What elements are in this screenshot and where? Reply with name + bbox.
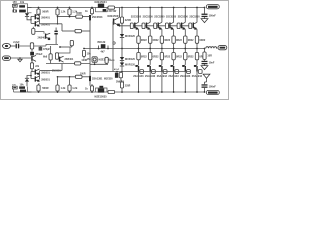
wire bpair join [30, 72, 32, 79]
wire [32, 27, 34, 29]
terminal IN jack [3, 43, 11, 48]
wire [204, 17, 206, 19]
wire collector col5 [184, 8, 186, 23]
transistor Q prot [31, 56, 33, 61]
wire [83, 56, 85, 58]
svg-text:2.2uF: 2.2uF [13, 41, 20, 44]
wire Q2 emitter [26, 12, 28, 14]
wire R 1.2k down [57, 15, 59, 24]
wire [58, 16, 76, 18]
junction dot [69, 76, 71, 78]
diode D bias b [99, 86, 103, 88]
wire driver base [112, 22, 114, 27]
wire lmid bus [46, 63, 90, 65]
resistor R lm [75, 62, 81, 65]
svg-text:BD139: BD139 [98, 41, 106, 44]
wire [11, 45, 16, 47]
junction dot [57, 76, 59, 78]
junction dot rail col3 [161, 7, 163, 9]
wire collector pnp col4 [173, 72, 175, 92]
wire output bus [84, 48, 205, 50]
wire drv2 [106, 63, 108, 64]
svg-text:0R22: 0R22 [141, 56, 147, 59]
wire collector pnp col2 [149, 72, 151, 92]
svg-text:2N5401: 2N5401 [41, 23, 50, 26]
wire [60, 46, 72, 48]
transistor Q VAS bot [89, 76, 91, 81]
wire [11, 57, 32, 59]
svg-text:MUR120: MUR120 [125, 58, 135, 61]
transistor 2N5551 b y69.4 [35, 69, 36, 74]
wire emitter col4 [173, 29, 175, 36]
svg-text:560R: 560R [42, 10, 48, 14]
transistor 2N5551 b y76.4 [35, 76, 36, 81]
transistor 2SA1943 col3 [161, 66, 162, 72]
wire to bus col2 [149, 43, 151, 48]
resistor 0R22 pnp col6 [195, 53, 198, 60]
svg-text:100R: 100R [76, 13, 82, 15]
transistor 2SA1943 col1 [138, 66, 139, 72]
wire [121, 88, 123, 92]
resistor 0R22 col5 [184, 36, 187, 43]
junction dot [107, 48, 109, 50]
resistor R drv [105, 57, 108, 63]
transistor 2SC5200 col3 [158, 23, 159, 29]
resistor base 4R7 col3 [154, 23, 157, 29]
resistor 0R22 col4 [172, 36, 175, 43]
wire [82, 16, 89, 18]
svg-text:2SC5200: 2SC5200 [131, 16, 142, 19]
wire R 560R down [38, 15, 40, 16]
resistor R fb2 [49, 54, 52, 60]
wire [31, 61, 33, 63]
wire [40, 69, 62, 71]
resistor R 10k fb [82, 50, 85, 56]
wire [40, 23, 62, 25]
svg-text:2SC5200: 2SC5200 [154, 16, 165, 19]
wire [62, 30, 75, 32]
resistor R fb3 [55, 53, 58, 59]
transistor Q bias [101, 44, 106, 48]
junction dot [94, 63, 96, 65]
wire from bus col5 [184, 49, 186, 53]
inductor L1 [206, 47, 217, 49]
resistor base pnp col1 [140, 70, 144, 74]
svg-text:10nF: 10nF [209, 62, 215, 65]
wire L to OUT [216, 47, 217, 49]
junction dot bus col3 [161, 48, 163, 50]
svg-text:220R: 220R [125, 86, 131, 88]
wire to bus col1 [138, 43, 140, 48]
svg-text:10R: 10R [207, 54, 212, 57]
resistor base 4R7 col4 [165, 23, 168, 29]
wire [204, 82, 206, 84]
resistor 220R [120, 17, 123, 23]
svg-text:15k: 15k [87, 58, 92, 61]
resistor base pnp col6 [198, 70, 202, 74]
wire bpair stack [39, 71, 41, 80]
resistor R series [76, 15, 83, 18]
svg-text:0.5R 5W: 0.5R 5W [107, 10, 117, 13]
wire VAS out column [112, 26, 114, 72]
junction dot bus col4 [173, 48, 175, 50]
wire [121, 66, 123, 72]
wire [19, 45, 46, 47]
wire to bus col5 [184, 43, 186, 48]
diode D bl [25, 79, 29, 82]
svg-text:2SC5200: 2SC5200 [189, 16, 200, 19]
junction dot [31, 45, 33, 47]
wire emitter pnp col5 [184, 60, 186, 65]
resistor base 4R7 col1 [130, 23, 133, 29]
wire [39, 45, 41, 48]
wire +75V top rail [27, 7, 205, 9]
wire [204, 88, 206, 92]
wire collector col1 [138, 8, 140, 23]
wire [58, 47, 70, 53]
svg-text:MUR120: MUR120 [125, 35, 135, 38]
thermal diode block [115, 73, 118, 78]
wire base bus NPN [120, 25, 190, 27]
wire emitter col6 [196, 29, 198, 36]
svg-text:0R22: 0R22 [188, 56, 194, 59]
wire collector col3 [161, 8, 163, 23]
transistor 2N5401 y14.2 [35, 14, 36, 19]
wire drv bus [90, 63, 108, 65]
junction dot pnp bus a [116, 71, 118, 73]
junction dot rail col5 [184, 7, 186, 9]
junction dot rail end [204, 7, 206, 9]
svg-text:15V: 15V [13, 1, 18, 4]
diode D bl2 [20, 90, 26, 93]
junction dot [121, 48, 123, 50]
resistor R series b [75, 75, 82, 78]
wire emitter pnp col6 [196, 60, 198, 65]
wire from bus col6 [196, 49, 198, 53]
wire collector pnp col1 [138, 72, 140, 92]
junction dot [57, 23, 59, 25]
capacitor C sh [30, 52, 34, 56]
wire top-left loop [14, 4, 32, 13]
diode D2 [25, 13, 29, 16]
junction dot rail x69.5 [69, 7, 71, 9]
resistor base pnp col4 [175, 70, 179, 74]
resistor R bottom x57.5 [57, 91, 59, 92]
resistor 0R22 pnp col5 [184, 53, 187, 60]
svg-text:0R22: 0R22 [141, 39, 147, 42]
junction dot bus col2 [149, 48, 151, 50]
svg-text:470pF: 470pF [43, 48, 51, 51]
terminal +75V [206, 5, 219, 9]
wire collector pnp col3 [161, 72, 163, 92]
wire [33, 30, 44, 35]
resistor R1 [19, 5, 25, 7]
diode MUR120 b1 [120, 57, 124, 60]
ground zobel [201, 66, 208, 70]
resistor 0R22 pnp col2 [149, 53, 152, 60]
wire [204, 8, 206, 14]
svg-text:1.2k: 1.2k [72, 86, 78, 90]
junction dot bus col5 [184, 48, 186, 50]
diode MUR120 b2 [120, 63, 124, 66]
wire bottom-left loop [14, 87, 28, 93]
wire [120, 80, 122, 82]
svg-text:2N5401: 2N5401 [65, 58, 74, 61]
capacitor C el [54, 31, 57, 32]
wire [120, 78, 122, 82]
svg-text:0R22: 0R22 [153, 56, 159, 59]
wire [46, 44, 58, 46]
resistor base 4R7 col5 [177, 23, 180, 29]
transistor 2SC5200 col1 [134, 23, 135, 29]
wire [121, 49, 123, 58]
transistor Q cascode [45, 34, 46, 39]
terminal OUT [218, 45, 227, 49]
junction dot rail col6 [196, 7, 198, 9]
resistor R 0.5R b [108, 90, 115, 93]
wire to bus col4 [173, 43, 175, 48]
resistor 560R top x38.5 [38, 8, 40, 10]
junction dot rail pnp col3 [161, 91, 163, 93]
wire [31, 69, 33, 72]
wire emitter col1 [138, 29, 140, 36]
wire collector col4 [173, 8, 175, 23]
junction dot [30, 75, 32, 77]
resistor 0R22 col6 [195, 36, 198, 43]
svg-text:MJE350: MJE350 [104, 79, 113, 81]
zener D bl [12, 86, 17, 89]
wire bR3 up [69, 77, 71, 85]
trimmer loop [99, 46, 109, 49]
svg-text:4k7: 4k7 [101, 50, 106, 53]
ground mid right [203, 74, 210, 78]
wire VAS low [89, 55, 91, 76]
wire from bus col1 [138, 49, 140, 53]
svg-text:10k: 10k [20, 1, 25, 4]
wire zobel [204, 49, 206, 53]
junction dot rail pnp col1 [138, 91, 140, 93]
junction dot [30, 19, 32, 21]
wire to input pair [27, 17, 31, 20]
resistor 1.2k top x69.5 [69, 8, 71, 10]
transistor 2N5401 y21.2 [35, 21, 36, 26]
ground symbol input [19, 58, 21, 59]
junction dot rail col2 [149, 7, 151, 9]
resistor R 0.5R on rail [108, 6, 115, 9]
svg-text:10k: 10k [87, 52, 92, 55]
wire tailq [35, 32, 44, 34]
junction dot [59, 46, 61, 48]
svg-text:MJE15034: MJE15034 [95, 1, 108, 4]
svg-text:0R22: 0R22 [176, 56, 182, 59]
wire collector pnp col5 [184, 72, 186, 92]
junction dot brail x38.5 [38, 91, 40, 93]
terminal -75V [206, 90, 219, 94]
svg-text:MUR120: MUR120 [125, 64, 135, 67]
transistor 2SC5200 col4 [169, 23, 170, 29]
wire collector pnp col6 [196, 72, 198, 92]
svg-text:0R22: 0R22 [176, 39, 182, 42]
svg-text:100nF: 100nF [209, 15, 217, 18]
wire emitter col5 [184, 29, 186, 36]
wire [204, 64, 206, 65]
wire [31, 46, 33, 52]
svg-text:2SC3503: 2SC3503 [92, 16, 103, 19]
resistor R sh [30, 63, 33, 69]
resistor R bl [19, 86, 25, 88]
junction dot bus col6 [196, 48, 198, 50]
transistor Q VAS top [89, 15, 91, 20]
resistor 1.2k bottom x69.5 [69, 91, 71, 92]
svg-text:220R: 220R [125, 19, 131, 22]
wire from bus col4 [173, 49, 175, 53]
junction dot [57, 16, 59, 18]
capacitor C470 [39, 47, 43, 51]
junction dot [119, 25, 121, 27]
wire -75V bottom rail [14, 91, 205, 93]
wire [82, 76, 90, 78]
svg-text:100R: 100R [109, 60, 115, 62]
resistor 0R22 col2 [149, 36, 152, 43]
test point circle [113, 42, 115, 44]
transistor 2SA1943 col6 [196, 66, 197, 72]
wire [121, 23, 123, 34]
wire bR2 up [57, 77, 59, 85]
transistor Q1 [13, 10, 17, 13]
transistor 2SC5200 col5 [181, 23, 182, 29]
wire rail stub [28, 7, 32, 9]
wire collector col6 [196, 8, 198, 23]
junction dot bus fb [83, 48, 85, 50]
resistor base pnp col5 [187, 70, 191, 74]
resistor 0R22 pnp col4 [172, 53, 175, 60]
resistor base pnp col2 [152, 70, 156, 74]
transistor Q lt [59, 57, 61, 62]
svg-text:47uF: 47uF [114, 68, 120, 71]
junction dot brail x57.5 [57, 91, 59, 93]
terminal GND [3, 56, 11, 60]
resistor R input shunt [30, 43, 33, 49]
zener D1 [12, 4, 17, 7]
transistor 2SC5200 col2 [146, 23, 147, 29]
wire emitter pnp col4 [173, 60, 175, 65]
wire [121, 61, 123, 63]
wire emitter pnp col1 [138, 60, 140, 65]
junction dot rail pnp col4 [173, 91, 175, 93]
wire emitter col3 [161, 29, 163, 36]
wire [89, 81, 91, 86]
svg-text:470uF: 470uF [35, 53, 43, 56]
svg-text:1.2k: 1.2k [61, 87, 66, 90]
svg-text:100R: 100R [81, 59, 87, 62]
svg-text:2SC5200: 2SC5200 [143, 16, 154, 19]
wire collector col2 [149, 8, 151, 23]
wire drv [94, 62, 96, 64]
diode MUR120 top [120, 34, 124, 37]
transistor Q current-source [98, 4, 104, 8]
svg-text:2SA1381: 2SA1381 [92, 78, 103, 81]
wire cs loop [96, 8, 108, 12]
svg-text:6k8: 6k8 [43, 55, 48, 58]
junction dot [121, 91, 123, 93]
svg-text:2N5551: 2N5551 [52, 69, 61, 72]
wire [81, 30, 90, 32]
wire to bus col6 [196, 43, 198, 48]
wire VAS [89, 20, 91, 55]
wire cs loop b [96, 88, 108, 92]
wire [71, 46, 73, 47]
wire bR1 up [38, 84, 40, 85]
resistor 0R22 pnp col1 [137, 53, 140, 60]
resistor 0R22 col1 [137, 36, 140, 43]
wire pair stack [39, 16, 41, 25]
resistor 0R22 col3 [160, 36, 163, 43]
svg-text:560R: 560R [42, 86, 48, 90]
wire [61, 24, 63, 31]
wire emitter col2 [149, 29, 151, 36]
transistor 2SA1943 col5 [185, 66, 186, 72]
border frame [1, 1, 229, 100]
junction dot rail col1 [138, 7, 140, 9]
resistor base 4R7 col6 [189, 23, 192, 29]
transistor 2SA1943 col4 [173, 66, 174, 72]
junction dot [98, 48, 100, 50]
ground rail top [201, 19, 208, 23]
capacitor C comp [75, 29, 81, 32]
svg-text:10k: 10k [20, 83, 25, 86]
wire [121, 8, 123, 18]
junction dot gndw [19, 57, 21, 59]
junction dot brail x69.5 [69, 91, 71, 93]
wire R 1k down [69, 15, 71, 17]
wire from diode bl [27, 76, 31, 87]
junction dot [91, 91, 93, 93]
wire bl rail [28, 91, 32, 93]
wire [50, 46, 52, 54]
svg-text:2N5401: 2N5401 [38, 37, 47, 40]
resistor base pnp col3 [163, 70, 167, 74]
resistor R tail [32, 29, 35, 35]
svg-text:0R22: 0R22 [153, 39, 159, 42]
junction dot [91, 7, 93, 9]
transistor Q cs bottom [98, 88, 104, 92]
transistor 2SA1943 col2 [150, 66, 151, 72]
capacitor C rail top [202, 14, 208, 15]
wire from bus col2 [149, 49, 151, 53]
junction dot rail pnp col2 [149, 91, 151, 93]
svg-text:2SC5200: 2SC5200 [178, 16, 189, 19]
resistor 220R b [120, 82, 123, 88]
diode D3 [103, 9, 106, 11]
junction dot pnp bus b [121, 71, 123, 73]
wire from bus col3 [161, 49, 163, 53]
svg-text:2N5551: 2N5551 [41, 78, 50, 81]
junction dot [121, 7, 123, 9]
svg-text:1.2k: 1.2k [61, 11, 66, 14]
junction dot rail col4 [173, 7, 175, 9]
junction dot bus col1 [138, 48, 140, 50]
wire emitter pnp col3 [161, 60, 163, 65]
resistor R b100 [91, 90, 93, 93]
svg-text:2N5401: 2N5401 [41, 16, 50, 19]
junction dot rail x38.5 [38, 7, 40, 9]
resistor 0R22 pnp col3 [160, 53, 163, 60]
junction dot rail x57.5 [57, 7, 59, 9]
svg-text:0R22: 0R22 [164, 56, 170, 59]
transistor Q driver PNP [92, 57, 97, 62]
svg-text:0R22: 0R22 [188, 39, 194, 42]
junction dot rail pnp col5 [184, 91, 186, 93]
